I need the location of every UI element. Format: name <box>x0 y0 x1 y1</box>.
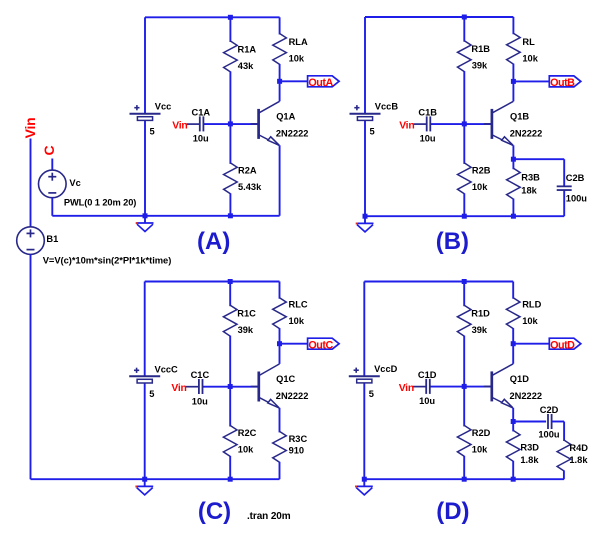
svg-text:R2D: R2D <box>472 428 491 438</box>
svg-text:V=V(c)*10m*sin(2*PI*1k*time): V=V(c)*10m*sin(2*PI*1k*time) <box>43 254 172 265</box>
svg-text:5: 5 <box>149 389 154 399</box>
svg-text:C: C <box>41 145 57 155</box>
svg-text:2N2222: 2N2222 <box>510 129 543 139</box>
svg-text:5: 5 <box>150 127 155 137</box>
svg-text:2N2222: 2N2222 <box>276 129 309 139</box>
svg-text:Vcc: Vcc <box>155 102 172 112</box>
svg-text:(B): (B) <box>436 228 469 255</box>
svg-text:Vin: Vin <box>172 121 187 132</box>
svg-text:R2C: R2C <box>238 428 257 438</box>
svg-text:OutD: OutD <box>550 339 575 351</box>
svg-text:C2D: C2D <box>540 405 559 415</box>
svg-text:R4D: R4D <box>569 443 588 453</box>
svg-text:R2A: R2A <box>238 166 257 176</box>
svg-text:Vin: Vin <box>22 118 38 139</box>
svg-text:OutB: OutB <box>550 77 575 89</box>
svg-text:10u: 10u <box>193 134 209 144</box>
svg-text:RLA: RLA <box>289 37 308 47</box>
svg-text:10k: 10k <box>522 316 538 326</box>
svg-text:10k: 10k <box>238 445 254 455</box>
svg-text:(A): (A) <box>197 228 230 255</box>
svg-text:100u: 100u <box>538 429 560 439</box>
svg-text:10k: 10k <box>472 182 488 192</box>
svg-text:2N2222: 2N2222 <box>276 391 309 401</box>
svg-text:RLD: RLD <box>522 299 541 309</box>
svg-text:Vc: Vc <box>69 178 80 188</box>
svg-text:10u: 10u <box>419 396 435 406</box>
svg-text:R1A: R1A <box>238 44 257 54</box>
svg-text:910: 910 <box>289 446 305 456</box>
svg-text:Q1A: Q1A <box>276 111 295 121</box>
svg-text:RLC: RLC <box>289 299 308 309</box>
svg-text:5: 5 <box>370 127 375 137</box>
svg-text:C1B: C1B <box>418 107 437 117</box>
svg-text:Vin: Vin <box>399 383 414 394</box>
svg-text:R3B: R3B <box>521 172 540 182</box>
svg-text:Vin: Vin <box>399 121 414 132</box>
svg-text:R1B: R1B <box>471 44 490 54</box>
svg-text:VccB: VccB <box>375 102 399 112</box>
svg-text:VccC: VccC <box>155 364 179 374</box>
svg-text:10k: 10k <box>289 54 305 64</box>
svg-text:R3D: R3D <box>520 442 539 452</box>
svg-text:RL: RL <box>522 37 535 47</box>
svg-text:Vin: Vin <box>171 383 186 394</box>
svg-text:10u: 10u <box>420 134 436 144</box>
svg-text:(C): (C) <box>198 498 231 525</box>
svg-text:10k: 10k <box>472 445 488 455</box>
svg-text:100u: 100u <box>566 193 588 203</box>
svg-text:C2B: C2B <box>566 173 585 183</box>
svg-text:10k: 10k <box>522 54 538 64</box>
svg-text:OutA: OutA <box>308 77 333 89</box>
svg-text:R1C: R1C <box>237 309 256 319</box>
svg-text:1.8k: 1.8k <box>569 455 588 465</box>
svg-text:B1: B1 <box>46 234 58 244</box>
svg-text:18k: 18k <box>521 186 537 196</box>
svg-text:39k: 39k <box>238 325 254 335</box>
svg-text:R2B: R2B <box>472 166 491 176</box>
svg-text:39k: 39k <box>472 325 488 335</box>
svg-text:5: 5 <box>369 389 374 399</box>
svg-text:Q1C: Q1C <box>276 374 295 384</box>
svg-text:10u: 10u <box>192 396 208 406</box>
svg-text:Q1D: Q1D <box>510 374 529 384</box>
svg-text:39k: 39k <box>472 61 488 71</box>
svg-text:C1D: C1D <box>418 370 437 380</box>
svg-text:43k: 43k <box>238 61 254 71</box>
svg-text:1.8k: 1.8k <box>520 455 539 465</box>
svg-text:5.43k: 5.43k <box>238 182 262 192</box>
svg-text:OutC: OutC <box>308 339 333 351</box>
svg-text:C1C: C1C <box>191 370 210 380</box>
svg-text:.tran 20m: .tran 20m <box>247 511 291 522</box>
svg-text:VccD: VccD <box>374 364 398 374</box>
svg-text:(D): (D) <box>436 498 469 525</box>
svg-text:10k: 10k <box>289 316 305 326</box>
svg-text:C1A: C1A <box>192 107 211 117</box>
svg-text:PWL(0 1 20m 20): PWL(0 1 20m 20) <box>64 198 136 208</box>
svg-text:R3C: R3C <box>289 434 308 444</box>
svg-text:2N2222: 2N2222 <box>510 391 543 401</box>
svg-text:R1D: R1D <box>471 309 490 319</box>
svg-text:Q1B: Q1B <box>510 111 529 121</box>
